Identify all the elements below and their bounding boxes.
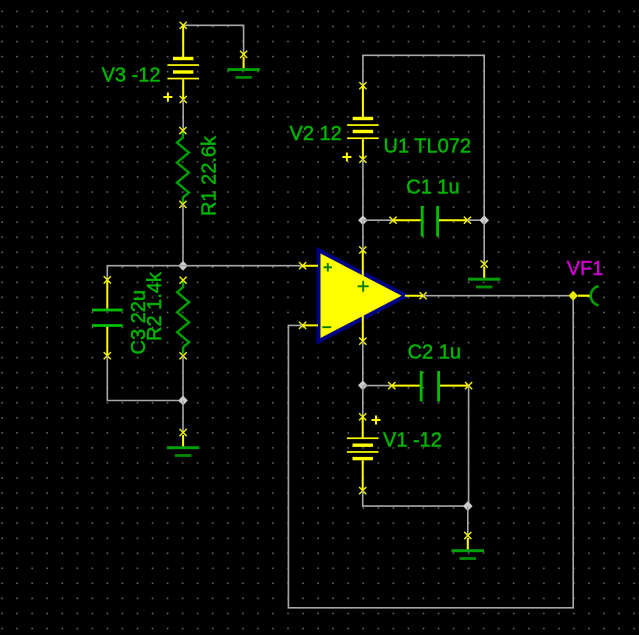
capacitor C1 <box>389 206 471 237</box>
wire J1 to C3 top <box>107 266 183 280</box>
wire J2 to ground G2 <box>182 401 184 433</box>
wire J6 to V1 top <box>362 385 364 416</box>
resistor R2 <box>177 277 189 360</box>
svg-text:V1 -12: V1 -12 <box>383 430 442 452</box>
wire V1 bottom to J7 <box>363 491 468 507</box>
voltage probe VF1 <box>578 286 599 305</box>
svg-text:V2 12: V2 12 <box>290 123 342 145</box>
wire C2 right lead down to J7 <box>468 386 470 507</box>
resistor R1 <box>177 127 189 208</box>
svg-text:U1 TL072: U1 TL072 <box>384 136 471 158</box>
junction J1 <box>178 261 188 271</box>
ground G1 (top, near V3) <box>227 51 259 79</box>
wire C3 bottom to node J2 <box>107 356 183 401</box>
junction J2 <box>178 396 188 406</box>
wire V2 top loop to J5 <box>363 55 484 220</box>
ground G4 (bottom right) <box>452 532 484 560</box>
junction J5 <box>479 215 489 225</box>
wire from V3 positive terminal to ground G1 <box>183 25 243 54</box>
junction J7 <box>463 501 473 511</box>
wire op-amp output to node J3 <box>423 295 573 297</box>
svg-text:C2 1u: C2 1u <box>408 342 461 364</box>
junction J6 <box>358 380 368 390</box>
wire R2 bottom to J2 <box>182 356 184 401</box>
wire feedback: inverting input to output node <box>288 296 573 608</box>
wire J4 to C1 left lead <box>363 219 393 221</box>
junction J3 (output node, yellow) <box>568 291 578 301</box>
capacitor C2 <box>388 371 472 402</box>
svg-text:V3 -12: V3 -12 <box>102 64 161 86</box>
battery V3 <box>163 22 199 103</box>
wire V2 bottom to J4 <box>362 159 364 220</box>
wire J1 to op-amp non-inverting input <box>183 265 302 267</box>
wire C1 right lead to J5 <box>467 219 484 221</box>
svg-text:R1 22.6k: R1 22.6k <box>199 135 221 216</box>
wire J7 to ground G4 <box>467 506 469 535</box>
battery V1 <box>347 413 381 494</box>
wire J5 to ground G3 <box>483 220 485 264</box>
ground G2 (below R2) <box>167 429 199 457</box>
ground G3 (right, below C1) <box>468 260 500 288</box>
wire V3 bottom to R1 top <box>182 100 184 131</box>
svg-text:VF1: VF1 <box>567 258 604 280</box>
wire R1 bottom to node J1 <box>182 204 184 265</box>
capacitor C3 <box>92 276 123 359</box>
battery V2 <box>342 82 378 163</box>
wire J4 to op-amp V+ pin <box>362 220 364 250</box>
wire op-amp V- pin to J6 <box>362 341 364 385</box>
svg-text:C1 1u: C1 1u <box>406 177 459 199</box>
svg-text:R2 1.4k: R2 1.4k <box>144 271 166 341</box>
op-amp U1 <box>299 246 427 344</box>
wire J6 to C2 left lead <box>363 385 392 387</box>
junction J4 <box>358 215 368 225</box>
